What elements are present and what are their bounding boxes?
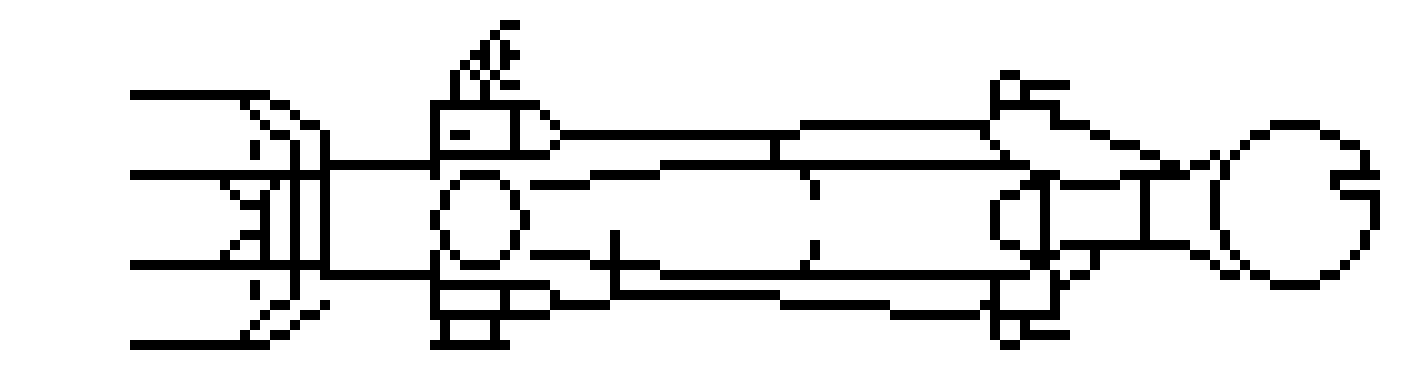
turret box part r14 — [430, 140, 440, 150]
grip ring part r21 — [1370, 210, 1380, 220]
third hull line step — [320, 270, 440, 280]
antenna segment r8 — [450, 80, 460, 90]
left intake dash r14 — [290, 140, 300, 150]
left intake piece r25 — [220, 250, 230, 260]
antenna segment r7 — [490, 70, 500, 80]
turret box part r12 — [430, 120, 440, 130]
grip ring part r15 — [1360, 150, 1370, 160]
turret box part r13 — [510, 130, 520, 140]
turret box part r15 — [430, 150, 550, 160]
left intake piece r19 — [260, 190, 270, 200]
left intake piece r30 — [270, 300, 290, 310]
grip ring part r22 — [1370, 220, 1380, 230]
hull tick c77 — [770, 140, 780, 150]
right thruster part r24 — [1000, 240, 1020, 250]
dome ring part r24 — [440, 240, 450, 250]
second hull line — [130, 170, 330, 180]
left intake piece r21 — [320, 210, 330, 220]
claw upper jaw part r19 — [1140, 190, 1150, 200]
claw inner edge r20 — [1140, 200, 1150, 210]
left intake piece r16 — [290, 160, 300, 170]
claw lower jaw part r27 — [1220, 270, 1240, 280]
right thruster part r19 — [1040, 190, 1050, 200]
claw upper jaw part r17 — [1220, 170, 1230, 180]
claw inner edge r21 — [1140, 210, 1150, 220]
left intake piece r28 — [250, 280, 260, 290]
left intake dash r15 — [320, 150, 330, 160]
right thruster part r26 — [1030, 260, 1050, 270]
claw upper jaw part r15 — [1140, 150, 1160, 160]
right thruster part r27 — [1070, 270, 1090, 280]
dome ring part r22 — [430, 220, 440, 230]
left intake dash r15 — [250, 150, 260, 160]
dome ring part r26 — [430, 260, 440, 270]
dome ring part r25 — [450, 250, 460, 260]
antenna segment r9 — [480, 90, 490, 100]
left intake piece r21 — [260, 210, 270, 220]
left intake arc piece r12 — [260, 120, 270, 130]
claw inner edge r27 — [1250, 270, 1270, 280]
antenna segment r9 — [450, 90, 460, 100]
right thruster part r22 — [1040, 220, 1050, 230]
segment r29 c99 — [990, 290, 1000, 300]
claw inner edge r23 — [1140, 230, 1150, 240]
claw inner edge r23 — [1220, 230, 1230, 240]
keel dip part r29 — [500, 290, 510, 300]
turret box part r13 — [560, 130, 800, 140]
antenna segment r5 — [470, 50, 490, 60]
hull tick r17 — [800, 170, 810, 180]
right bottom line r32 — [1020, 320, 1030, 330]
claw upper jaw part r16 — [1160, 160, 1180, 170]
keel strut r29 — [610, 290, 780, 300]
left intake arc piece r12 — [300, 120, 320, 130]
left intake piece r18 — [270, 180, 280, 190]
turret box part r11 — [430, 110, 440, 120]
left intake piece r21 — [290, 210, 300, 220]
right pod part r13 — [1090, 130, 1110, 140]
top-right pod segment r12 — [1050, 120, 1090, 130]
claw upper jaw part r19 — [1210, 190, 1220, 200]
left intake piece r22 — [320, 220, 330, 230]
claw lower jaw part r24 — [1220, 240, 1230, 250]
claw lower jaw part r25 — [1190, 250, 1210, 260]
hull mid step — [1000, 150, 1010, 160]
grip ring part r24 — [1360, 240, 1370, 250]
left intake piece r22 — [290, 220, 300, 230]
grip ring part r20 — [1370, 200, 1380, 210]
antenna segment r8 — [480, 80, 490, 90]
right bottom line r31 — [890, 310, 980, 320]
left intake piece r20 — [320, 200, 330, 210]
top-right pod segment r10 — [990, 100, 1060, 110]
left intake piece r18 — [320, 180, 330, 190]
landing base plate — [430, 340, 510, 350]
right pod part r18 — [1060, 180, 1120, 190]
dome ring part r21 — [430, 210, 440, 220]
dome ring part r23 — [440, 230, 450, 240]
keel dip part r28 — [430, 280, 550, 290]
keel strut r24 — [610, 240, 620, 250]
right bottom line r30 — [980, 300, 1000, 310]
claw upper jaw part r14 — [1240, 140, 1250, 150]
left intake piece r30 — [320, 300, 330, 310]
left intake piece r24 — [260, 240, 270, 250]
claw inner edge r22 — [1210, 220, 1220, 230]
left intake piece r24 — [230, 240, 240, 250]
turret box part r14 — [510, 140, 520, 150]
left intake piece r25 — [290, 250, 300, 260]
keel dip part r25 — [530, 250, 590, 260]
landing leg r32 — [490, 320, 500, 330]
left intake arc piece r13 — [270, 130, 290, 140]
right bottom line r32 — [990, 320, 1000, 330]
left intake piece r18 — [220, 180, 230, 190]
turret box part r12 — [550, 120, 560, 130]
left intake piece r25 — [260, 250, 270, 260]
left intake piece r33 — [240, 330, 250, 340]
antenna segment r3 — [490, 30, 500, 40]
turret box part r12 — [510, 120, 520, 130]
left intake piece r19 — [290, 190, 300, 200]
right thruster part r21 — [990, 210, 1000, 220]
top-right pod segment r9 — [990, 90, 1000, 100]
hull tick r19 — [810, 190, 820, 200]
left intake piece r29 — [250, 290, 260, 300]
top-right pod segment r7 — [1000, 70, 1020, 80]
claw inner edge r25 — [1230, 250, 1240, 260]
top-right pod segment r8 — [1020, 80, 1070, 90]
dome ring part r19 — [440, 190, 450, 200]
grip ring part r25 — [1350, 250, 1360, 260]
claw inner edge r20 — [1210, 200, 1220, 210]
segment r28 c105 — [1050, 280, 1070, 290]
antenna segment r7 — [470, 70, 480, 80]
antenna segment r5 — [500, 50, 520, 60]
right thruster part r19 — [1000, 190, 1020, 200]
turret box part r14 — [550, 140, 560, 150]
claw upper jaw part r15 — [1210, 150, 1220, 160]
dome ring part r21 — [520, 210, 530, 220]
dome ring part r22 — [520, 220, 530, 230]
grip ring part r18 — [1330, 180, 1340, 190]
turret box top — [430, 100, 540, 110]
dome ring part r23 — [510, 230, 520, 240]
antenna segment r4 — [500, 40, 510, 50]
left intake piece r29 — [290, 290, 300, 300]
left intake piece r31 — [260, 310, 270, 320]
antenna segment r4 — [480, 40, 490, 50]
left intake piece r19 — [320, 190, 330, 200]
claw inner edge r26 — [1240, 260, 1250, 270]
grip ring part r23 — [1360, 230, 1370, 240]
right thruster part r21 — [1040, 210, 1050, 220]
keel tick r25 — [810, 250, 820, 260]
left intake piece r32 — [290, 320, 300, 330]
left intake arc piece r10 — [270, 100, 290, 110]
claw upper jaw part r14 — [1110, 140, 1140, 150]
turret box part r11 — [540, 110, 550, 120]
hull mid line — [660, 160, 1030, 170]
antenna segment r2 — [500, 20, 520, 30]
keel tick r26 — [800, 260, 810, 270]
keel tick r24 — [810, 240, 820, 250]
grip ring part r28 — [1270, 280, 1320, 290]
right bottom line r33 — [990, 330, 1000, 340]
left intake piece r28 — [290, 280, 300, 290]
left intake piece r33 — [270, 330, 290, 340]
dome ring part r24 — [510, 240, 520, 250]
segment r30 c78 — [780, 300, 890, 310]
left intake piece r32 — [250, 320, 260, 330]
antenna segment r6 — [480, 60, 490, 70]
keel dip part r29 — [550, 290, 560, 300]
dome ring part r17 — [460, 170, 500, 180]
grip ring part r17 — [1330, 170, 1380, 180]
claw upper jaw part r13 — [1250, 130, 1270, 140]
lower-left hull line — [130, 340, 270, 350]
left intake dash r14 — [250, 140, 260, 150]
claw lower jaw part r26 — [1090, 260, 1100, 270]
upper-left hull line — [130, 90, 270, 100]
grip ring part r13 — [1320, 130, 1340, 140]
grip ring part r27 — [1320, 270, 1340, 280]
hull top line right — [800, 120, 990, 130]
dome ring part r17 — [430, 170, 440, 180]
left intake piece r23 — [290, 230, 300, 240]
dome ring part r25 — [430, 250, 440, 260]
left intake piece r25 — [320, 250, 330, 260]
keel line left — [530, 180, 590, 190]
dome ring part r26 — [460, 260, 500, 270]
top-right pod segment r8 — [990, 80, 1000, 90]
left intake piece r24 — [290, 240, 300, 250]
right thruster part r24 — [1040, 240, 1050, 250]
dome ring part r18 — [450, 180, 460, 190]
claw inner edge r22 — [1140, 220, 1150, 230]
hull top step r13 — [980, 130, 990, 140]
keel dip part r29 — [430, 290, 440, 300]
hull tick c77 — [770, 150, 780, 160]
right pod part r17 — [1030, 170, 1060, 180]
left intake piece r20 — [290, 200, 300, 210]
right thruster part r24 — [1060, 240, 1190, 250]
landing leg r32 — [440, 320, 450, 330]
turret box part r11 — [510, 110, 520, 120]
left intake piece r27 — [290, 270, 300, 280]
hull bottom line — [660, 270, 1030, 280]
right pod part r18 — [1020, 180, 1050, 190]
left intake piece r24 — [320, 240, 330, 250]
keel strut r25 — [610, 250, 620, 260]
dome ring part r25 — [500, 250, 510, 260]
left intake piece r18 — [290, 180, 300, 190]
mid hull step line — [320, 160, 440, 170]
right thruster part r27 — [1050, 270, 1060, 280]
dome ring part r18 — [500, 180, 510, 190]
claw upper jaw part r17 — [1120, 170, 1190, 180]
antenna segment r6 — [460, 60, 470, 70]
turret box part r13 — [430, 130, 440, 140]
dome ring part r20 — [440, 200, 450, 210]
antenna segment r7 — [450, 70, 460, 80]
left intake piece r19 — [230, 190, 240, 200]
turret box part r13 — [450, 130, 470, 140]
claw upper jaw part r15 — [1230, 150, 1240, 160]
keel dip part r30 — [500, 300, 510, 310]
claw upper jaw part r16 — [1220, 160, 1230, 170]
left intake arc piece r13 — [320, 130, 330, 140]
left intake piece r23 — [320, 230, 330, 240]
landing box part r31 — [430, 310, 550, 320]
left intake arc piece r10 — [240, 100, 250, 110]
claw upper jaw part r18 — [1140, 180, 1150, 190]
antenna segment r8 — [500, 80, 520, 90]
claw upper jaw part r18 — [1210, 180, 1220, 190]
keel dip part r30 — [550, 300, 610, 310]
hull top step r14 — [990, 140, 1000, 150]
top-right pod segment r11 — [1050, 110, 1060, 120]
right bottom line r30 — [1050, 300, 1060, 310]
segment r29 c105 — [1050, 290, 1060, 300]
left intake piece r23 — [240, 230, 270, 240]
grip ring part r19 — [1340, 190, 1380, 200]
right thruster part r20 — [990, 200, 1000, 210]
keel strut r27 — [610, 270, 620, 280]
landing leg r33 — [440, 330, 450, 340]
hull tick r18 — [810, 180, 820, 190]
grip ring part r26 — [1340, 260, 1350, 270]
right thruster part r22 — [990, 220, 1000, 230]
claw lower jaw part r25 — [1090, 250, 1100, 260]
keel strut r23 — [610, 230, 620, 240]
keel strut r28 — [610, 280, 620, 290]
right thruster part r20 — [1040, 200, 1050, 210]
top-right pod segment r11 — [990, 110, 1000, 120]
left intake piece r20 — [240, 200, 270, 210]
right bottom line r31 — [990, 310, 1060, 320]
claw lower jaw part r26 — [1210, 260, 1220, 270]
claw inner edge r21 — [1210, 210, 1220, 220]
right bottom line r33 — [1020, 330, 1070, 340]
third hull line — [130, 260, 330, 270]
left intake dash r14 — [320, 140, 330, 150]
segment r28 c99 — [990, 280, 1000, 290]
right thruster part r23 — [990, 230, 1000, 240]
claw upper jaw part r16 — [1190, 160, 1210, 170]
right bottom line r34 — [1000, 340, 1020, 350]
grip ring part r14 — [1340, 140, 1360, 150]
top-right pod segment r12 — [1270, 120, 1320, 130]
dome ring part r19 — [510, 190, 520, 200]
keel dip part r30 — [430, 300, 440, 310]
antenna segment r6 — [500, 60, 510, 70]
left intake arc piece r11 — [250, 110, 260, 120]
dome ring part r20 — [510, 200, 520, 210]
left intake dash r15 — [290, 150, 300, 160]
left intake piece r22 — [260, 220, 270, 230]
top-right pod segment r9 — [1020, 90, 1030, 100]
keel dip part r26 — [590, 260, 660, 270]
landing leg r33 — [490, 330, 500, 340]
right thruster part r25 — [1020, 250, 1060, 260]
grip ring part r16 — [1360, 160, 1370, 170]
right thruster part r23 — [1040, 230, 1050, 240]
keel line upper — [590, 170, 660, 180]
left intake arc piece r11 — [290, 110, 300, 120]
left intake piece r31 — [300, 310, 320, 320]
